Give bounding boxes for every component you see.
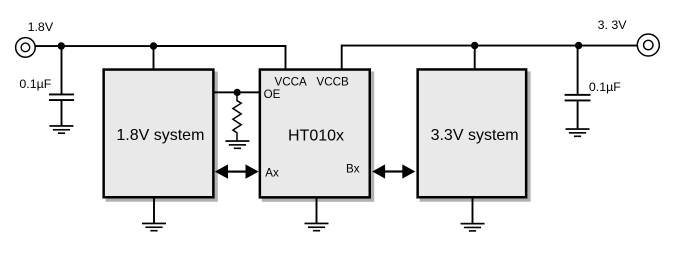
node C (junction dot on OE net) — [234, 89, 241, 96]
wire OE net (1.8V system to HT010x OE pin) — [214, 91, 260, 93]
wire node A to node B — [61, 45, 153, 47]
svg-text:1.8V: 1.8V — [28, 20, 54, 34]
capacitor C1 (0.1uF decoupling, left) — [49, 46, 74, 125]
capacitor C2 (0.1uF decoupling, right) — [565, 46, 591, 129]
svg-text:1.8V system: 1.8V system — [116, 127, 204, 144]
ground under 1.8V system — [142, 199, 166, 232]
svg-text:Ax: Ax — [265, 166, 279, 179]
block: 3.3V system (box with drop shadow) — [418, 69, 531, 201]
wire node B down to 1.8V system box — [153, 46, 155, 70]
svg-text:Bx: Bx — [346, 163, 360, 176]
svg-text:OE: OE — [264, 88, 281, 101]
bus arrow Bx (bidirectional, HT010x to 3.3V system) — [372, 164, 415, 178]
svg-text:HT010x: HT010x — [288, 128, 344, 145]
ground under C2 — [566, 128, 590, 137]
wire node D down to 3.3V system box — [474, 46, 476, 70]
svg-text:0.1µF: 0.1µF — [589, 80, 621, 94]
wire J1 to node A — [35, 45, 61, 47]
node A (junction dot at C1 tap) — [58, 42, 65, 49]
ground under R1 — [225, 140, 249, 149]
ground under HT010x — [305, 199, 329, 232]
svg-text:VCCB: VCCB — [317, 75, 349, 88]
svg-text:0.1µF: 0.1µF — [19, 77, 51, 91]
svg-text:3.3V system: 3.3V system — [431, 127, 519, 144]
terminal J1 (1.8V supply connector) — [16, 38, 36, 58]
node B (junction dot above 1.8V system) — [150, 42, 157, 49]
wire node B to VCCA pin (rail + riser) — [154, 46, 286, 70]
resistor R1 (OE pulldown) — [233, 95, 241, 141]
wire node D to node E — [475, 45, 579, 47]
terminal J2 (3.3V supply connector) — [637, 34, 659, 56]
wire VCCB rail to node D — [342, 45, 475, 47]
block: 1.8V system (box with drop shadow) — [104, 70, 218, 202]
node E (junction dot at C2 tap) — [575, 42, 582, 49]
bus arrow Ax (bidirectional, 1.8V system to HT010x) — [215, 164, 259, 178]
svg-text:3. 3V: 3. 3V — [598, 18, 628, 32]
node D (junction dot above 3.3V system) — [471, 42, 478, 49]
ground under 3.3V system — [461, 199, 485, 232]
wire node E to J2 — [579, 45, 637, 47]
ground under C1 — [50, 125, 74, 134]
svg-text:VCCA: VCCA — [275, 75, 307, 88]
IC U1 HT010x (box with drop shadow) — [260, 70, 374, 202]
wire VCCB pin riser — [341, 45, 343, 70]
